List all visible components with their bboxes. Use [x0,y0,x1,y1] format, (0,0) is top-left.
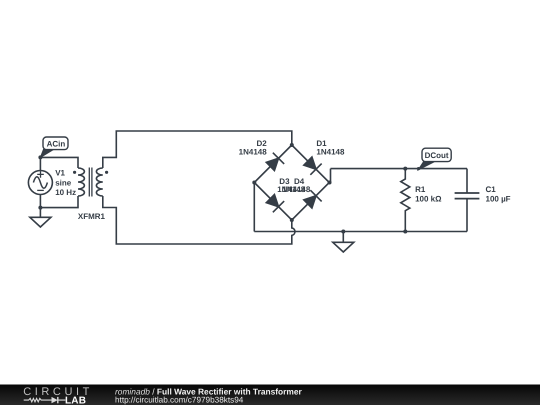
wire secondary top: transformer to bridge top node [103,131,292,168]
wire output top rail [331,168,468,170]
node DCout tap [417,167,420,170]
net flag ACin [40,137,68,157]
node junction dots [38,143,420,234]
node R1 top [403,167,407,171]
svg-text:100 µF: 100 µF [486,195,511,204]
diode D1 (top node to right node) [304,157,322,175]
primary winding [78,168,84,196]
wire bridge left node down to bottom rail [253,183,255,232]
ground (V1) [30,208,51,227]
label V1 value [55,169,76,198]
node R1 bottom [403,230,407,234]
svg-text:1N4148: 1N4148 [316,147,345,156]
label C1 value [486,185,511,204]
phase dot secondary [105,171,108,174]
svg-text:100 kΩ: 100 kΩ [415,195,442,204]
logo CIRCUIT LAB [23,386,93,405]
voltage source V1 [28,171,52,195]
ground (output rail) [333,232,354,253]
svg-text:1N4148: 1N4148 [239,147,268,156]
node bridge bottom [290,218,294,222]
wire V1 bottom stub [39,194,41,208]
transformer XFMR1 [73,168,108,197]
capacitor C1 [455,169,480,232]
phase dot primary [73,171,76,174]
svg-text:DCout: DCout [425,151,449,160]
wire bridge right node up to top rail [329,169,332,183]
net flag DCout [418,148,451,170]
wire primary bottom: transformer primary to V1 bottom node [40,196,78,208]
svg-text:10 Hz: 10 Hz [55,188,76,197]
svg-text:R1: R1 [415,185,426,194]
node bridge left [252,181,256,185]
svg-text:sine: sine [55,178,72,187]
diode D4 (bottom node to right node) [304,190,322,208]
label R1 value [415,185,442,204]
svg-text:ACin: ACin [47,139,66,148]
node bridge top [290,143,294,147]
svg-text:V1: V1 [55,169,65,178]
wire secondary bottom with hop over output rail [103,196,295,244]
svg-text:http://circuitlab.com/c7979b38: http://circuitlab.com/c7979b38kts94 [115,395,244,404]
svg-text:XFMR1: XFMR1 [78,212,106,221]
core [89,168,92,197]
svg-text:C1: C1 [486,185,497,194]
label D1 [316,139,345,156]
footer bar [0,385,540,405]
wire primary top: V1 top node to transformer primary [40,157,78,168]
node ground tap [341,230,345,234]
resistor R1 [401,169,410,232]
svg-text:LAB: LAB [65,396,86,405]
diode bridge arms [254,145,329,220]
wire output bottom rail [254,231,467,233]
diode D3 (left node to bottom node) [266,195,284,213]
node V1-ground junction [38,206,42,210]
wire V1 top stub [39,157,41,171]
label D2 [239,139,268,156]
secondary winding [96,168,102,196]
node bridge right [328,181,332,185]
diode D2 (left node to top node) [266,153,284,171]
node ACin junction [38,155,42,159]
svg-text:1N4148: 1N4148 [282,185,311,194]
label D4 [282,177,311,194]
label D3 [277,177,306,194]
